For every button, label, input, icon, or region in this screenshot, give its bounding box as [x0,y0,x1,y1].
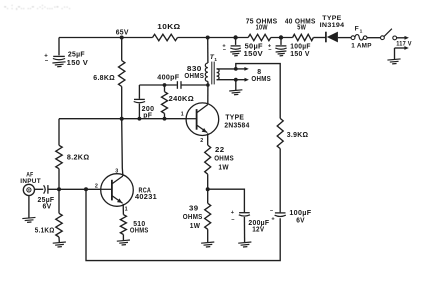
wire feedback top [236,64,280,119]
ground secondary [229,90,243,95]
svg-text:2: 2 [200,138,203,144]
node feedback tap [84,187,88,191]
wire Q1 emitter [122,204,124,215]
svg-text:+: + [231,210,235,216]
AC line terminal lower [395,46,409,59]
svg-text:OHMS: OHMS [184,73,204,80]
label AF INPUT [20,172,41,186]
wire jack to C2 [35,188,44,190]
node 200pF bottom [138,117,142,121]
resistor R5 240K [162,85,195,119]
svg-text:1: 1 [214,57,217,62]
node base Q1 left [57,187,61,191]
svg-text:150V: 150V [244,51,264,58]
svg-text:40231: 40231 [135,193,157,201]
ground R8 [117,240,131,245]
wire rail right [271,37,293,39]
resistor R11 3.9K [277,118,308,212]
svg-text:22: 22 [215,147,224,154]
wire feedback bottom [86,189,280,260]
svg-text:−: − [45,58,49,64]
node secondary top [234,67,238,71]
svg-text:1: 1 [125,206,128,212]
svg-text:OHMS: OHMS [130,228,149,235]
svg-text:−: − [268,47,272,53]
node 240K bottom [163,117,167,121]
capacitor C7 200&#181;F 12V [208,189,270,242]
svg-text:2: 2 [95,184,98,190]
wire fuse to switch [367,37,380,39]
resistor R6 8.2K [56,119,90,190]
ground C3 [230,51,241,56]
wire diode to fuse [338,37,351,39]
resistor R1 6.8K [93,38,125,119]
capacitor C3 50&#181;F 150V [222,35,263,58]
AC line terminal upper [393,36,412,47]
wire base Q1 [59,188,101,190]
svg-text:6V: 6V [296,217,305,224]
svg-text:IN3194: IN3194 [320,22,345,29]
svg-text:1 AMP: 1 AMP [351,43,372,50]
node 65V [116,29,129,39]
svg-text:8.2KΩ: 8.2KΩ [67,154,90,162]
svg-text:240KΩ: 240KΩ [169,95,194,103]
svg-text:1: 1 [181,111,184,117]
svg-text:−: − [270,208,274,214]
label RCA 40231 [135,186,157,201]
capacitor C6 400pF [139,74,208,89]
capacitor C2 25&#181;F 6V [38,185,60,210]
svg-text:400pF: 400pF [157,74,180,82]
resistor R10 39 OHMS 1W [183,189,211,242]
svg-text:150 V: 150 V [67,59,89,67]
capacitor C1 25&#181;F 150V [44,38,88,67]
svg-text:OHMS: OHMS [183,214,203,221]
node collector Q1 junction [120,117,124,121]
svg-text:12V: 12V [252,227,264,234]
wire secondary bottom [217,79,236,81]
svg-text:OHMS: OHMS [214,156,234,163]
svg-text:2N3584: 2N3584 [224,122,249,129]
ground R7 [53,242,67,247]
svg-text:6V: 6V [43,203,52,210]
svg-text:117 V: 117 V [396,40,412,47]
wire rail mid [178,37,249,39]
svg-text:5.1KΩ: 5.1KΩ [35,227,55,235]
svg-text:150 V: 150 V [290,51,309,58]
svg-text:25µF: 25µF [68,51,85,59]
svg-text:1W: 1W [218,164,229,171]
switch S1 [381,29,392,40]
transistor Q2 TYPE 2N3584 [186,103,219,144]
svg-text:39: 39 [189,206,198,213]
faint page text [4,4,71,11]
wire secondary ground stem [235,80,237,90]
ground jack [22,217,36,222]
svg-text:1: 1 [360,29,363,35]
ground C7 [238,242,252,247]
wire Q1 collector [122,119,123,176]
svg-text:6.8KΩ: 6.8KΩ [93,74,115,82]
fuse F1 1 AMP [351,26,372,50]
svg-text:3.9KΩ: 3.9KΩ [287,132,309,139]
svg-text:−: − [223,47,227,53]
jack J1 AF input [23,184,34,195]
resistor R8 510 OHMS [120,215,148,241]
svg-text:TYPE: TYPE [225,115,244,122]
node secondary bottom [234,78,238,82]
output terminal lower [236,78,249,82]
svg-text:OHMS: OHMS [251,76,271,83]
wire to diode [313,37,325,39]
resistor R4 40 OHMS 5W [285,18,316,40]
label 8 OHMS [251,69,271,83]
capacitor C8 100&#181;F 6V [270,208,312,224]
resistor R2 10K [153,23,181,41]
resistor R3 75 OHMS 10W [246,18,278,40]
svg-text:5W: 5W [297,25,306,32]
capacitor C4 100&#181;F 150V [268,35,311,58]
wire Q2 collector [207,85,209,105]
svg-text:830: 830 [187,66,202,73]
transistor Q1 RCA 40231 [95,168,133,212]
node collector-primary [206,83,210,87]
svg-text:8: 8 [257,69,261,76]
label TYPE 2N3584 [224,115,249,130]
wire Q2 base [59,118,186,120]
svg-text:100µF: 100µF [289,210,311,217]
wire Q2 emitter [207,133,209,145]
svg-text:+: + [271,216,275,222]
svg-text:−: − [231,218,235,224]
diode CR1 type 1N3194 [320,15,345,42]
pin 1 Q2 [181,111,184,117]
svg-text:F: F [355,26,359,33]
node RC top [163,83,167,87]
ground C1 [52,62,66,67]
svg-text:-. : ,-.. ..- .·:·…·- .··.: -. : ,-.. ..- .·:·…·- .··. [4,4,71,11]
resistor R7 5.1K [35,189,62,242]
resistor R9 22 OHMS 1W [205,145,234,189]
ground R10 [201,242,215,247]
label 830 OHMS [184,66,204,80]
ground C4 [276,51,287,56]
output terminal upper [236,67,249,71]
capacitor C5 200pF [134,85,155,120]
svg-text:1W: 1W [190,223,201,230]
svg-text:100µF: 100µF [290,44,311,51]
wire jack stem [28,196,30,218]
svg-text:10W: 10W [256,25,268,32]
node Q2 emitter net [206,187,210,191]
wire 65V rail left [59,37,153,39]
svg-text:50µF: 50µF [245,44,263,51]
svg-text:3: 3 [115,168,118,174]
ground AC [387,59,401,64]
svg-text:10KΩ: 10KΩ [157,23,180,31]
svg-text:65V: 65V [116,29,129,36]
transformer T1 830 ohms primary / 8 ohms secondary [205,38,219,86]
node rail-xfmr [206,36,210,40]
wire secondary top [217,68,236,70]
